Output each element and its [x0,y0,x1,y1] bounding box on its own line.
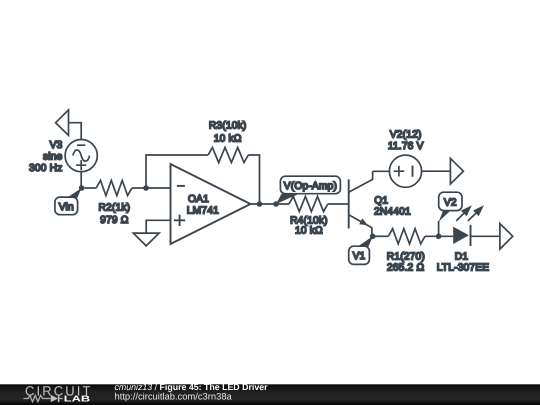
wire op-amp output [251,203,290,205]
svg-text:10 kΩ: 10 kΩ [214,134,242,145]
wire node to op-amp minus input [146,187,171,189]
resistor R3 [208,121,248,163]
svg-text:V1: V1 [353,251,366,262]
voltage source V2 (battery) [388,130,424,188]
voltage source V3 (sine) [65,140,97,172]
svg-text:V(Op-Amp): V(Op-Amp) [284,181,337,192]
Q1 name label [374,196,411,218]
resistor R1 [373,229,454,274]
R4 value label [290,215,328,236]
V2 value label [388,130,424,152]
svg-text:LAB: LAB [64,393,90,403]
wire to non-inverting input [146,220,170,233]
junction dot (feedback tap) [257,201,263,207]
wire V2 to ground [422,170,451,172]
wire feedback up [146,155,208,188]
node flag V2 [439,192,462,236]
svg-text:Q1: Q1 [374,196,388,207]
wire Q1 collector to V2 [373,170,390,172]
node Vin junction dot [79,185,85,191]
svg-text:R2(1k): R2(1k) [99,202,131,213]
svg-text:sine: sine [43,152,63,163]
svg-text:LM741: LM741 [187,206,219,217]
svg-text:Vin: Vin [59,202,74,213]
ground (right of V2) [450,158,463,184]
svg-text:300 Hz: 300 Hz [29,163,62,174]
node junction dot (inverting input) [143,185,149,191]
diode D1 LED [437,205,490,273]
svg-text:V2(12): V2(12) [390,130,422,141]
svg-text:R4(10k): R4(10k) [290,215,328,226]
node V(Op-Amp) junction dot [273,201,279,207]
resistor R2 [84,180,146,226]
label V3 sine 300 Hz [29,140,63,174]
svg-text:2N4401: 2N4401 [374,207,411,218]
node flag Vin [55,188,82,215]
node V2 junction dot [436,234,442,240]
svg-text:OA1: OA1 [188,194,209,205]
svg-text:D1: D1 [455,252,469,263]
node flag V1 [349,236,373,264]
wire feedback down to output [248,155,259,204]
R2 value label [99,202,131,226]
node flag V(Op-Amp) [276,176,340,204]
svg-text:R1(270): R1(270) [387,252,425,263]
wire D1 to ground [471,235,500,237]
svg-text:V3: V3 [50,140,63,151]
svg-text:265.2 Ω: 265.2 Ω [387,263,425,274]
transistor Q1 2N4401 (NPN) [349,171,411,236]
ground (rotated left, at V3 top) [56,110,82,140]
svg-text:R3(10k): R3(10k) [209,121,247,132]
svg-text:V2: V2 [444,197,457,208]
svg-text:10 kΩ: 10 kΩ [295,226,323,237]
ground (right of D1) [500,224,513,250]
wire V3 to node Vin [80,172,82,188]
node V1 junction dot [370,234,376,240]
OA1 name label [187,194,219,217]
R1 value label [387,252,425,274]
R3 value label [209,121,247,145]
CircuitLab logo [24,384,93,404]
footer bar [0,384,540,405]
D1 name label [437,252,490,274]
svg-text:979 Ω: 979 Ω [100,215,129,226]
svg-text:11.76 V: 11.76 V [388,141,424,152]
ground (below op-amp) [133,233,159,246]
svg-text:LTL-307EE: LTL-307EE [437,263,490,274]
resistor R4 [289,196,349,236]
svg-text:http://circuitlab.com/c3rn38a: http://circuitlab.com/c3rn38a [115,391,233,402]
op-amp OA1 LM741 [171,164,251,244]
